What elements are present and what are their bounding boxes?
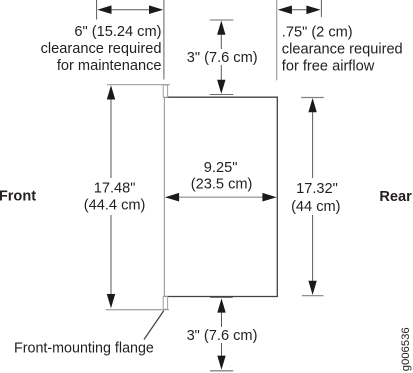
dimension arrow 6in clearance (97, 5, 163, 14)
top mounting flange (163, 85, 167, 97)
chassis outline (164, 97, 277, 297)
dimension arrow 17.32in (right height) (308, 98, 316, 295)
svg-text:Front: Front (0, 189, 36, 205)
dimension arrow lower 3in (217, 298, 225, 369)
svg-text:clearance required: clearance required (41, 41, 162, 57)
bottom mounting flange (163, 297, 167, 310)
svg-text:9.25": 9.25" (204, 160, 238, 176)
tick left of 6in dimension (96, 0, 98, 20)
extension line front plane (left vertical under 6in arrow) (163, 0, 165, 80)
svg-text:Rear: Rear (379, 189, 412, 205)
svg-text:17.32": 17.32" (296, 181, 338, 197)
svg-text:g006536: g006536 (400, 327, 412, 371)
extension line bottom flange outer face (106, 309, 169, 311)
extension line rear plane (right vertical under .75in arrow) (276, 0, 278, 80)
dimension arrow 9.25in (width) (165, 193, 277, 202)
dimension arrow 17.48in (left height) (107, 85, 115, 308)
dimension arrow .75in clearance (278, 6, 321, 15)
svg-text:clearance required: clearance required (282, 42, 403, 58)
label upper 3in (186, 49, 256, 65)
label lower 3in (186, 327, 257, 343)
tick bottom of lower 3in dimension (210, 370, 233, 372)
tick top of lower 3in dimension (210, 296, 232, 298)
svg-text:6" (15.24 cm): 6" (15.24 cm) (74, 24, 161, 40)
svg-text:for maintenance: for maintenance (57, 58, 162, 74)
tick top of 17.32in dimension (301, 97, 324, 99)
extension line top flange outer face (107, 84, 170, 86)
tick top of upper 3in dimension (210, 19, 234, 21)
svg-text:17.48": 17.48" (94, 181, 136, 197)
svg-text:(44.4 cm): (44.4 cm) (84, 198, 146, 214)
dimension arrow upper 3in (217, 21, 225, 94)
tick bottom of 17.32in dimension (302, 295, 324, 297)
svg-text:for free airflow: for free airflow (282, 59, 375, 75)
svg-text:Front-mounting flange: Front-mounting flange (14, 340, 154, 356)
tick bottom of upper 3in dimension (210, 94, 233, 96)
svg-text:(23.5 cm): (23.5 cm) (191, 177, 253, 193)
leader line to front-mounting flange (144, 311, 164, 340)
svg-text:3" (7.6 cm): 3" (7.6 cm) (187, 50, 258, 66)
tick right of .75in dimension (320, 0, 322, 17)
svg-text:.75" (2 cm): .75" (2 cm) (282, 25, 353, 41)
svg-text:3" (7.6 cm): 3" (7.6 cm) (187, 328, 258, 344)
svg-text:(44 cm): (44 cm) (291, 199, 340, 215)
